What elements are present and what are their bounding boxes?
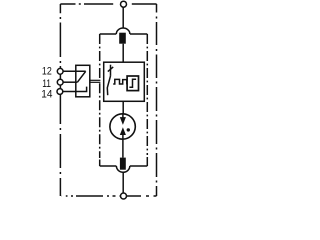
terminal 12 [57, 68, 63, 74]
svg-text:12: 12 [42, 66, 52, 78]
terminal: bottom line terminal [121, 193, 127, 199]
wire: bottom disconnector to bottom terminal [122, 172, 124, 193]
inner SPD module boundary top edge segments [100, 33, 148, 35]
inner SPD module boundary (dash-dot sides) [100, 34, 148, 158]
contact 14 line with stub [63, 87, 87, 92]
arrester top electrode arrow (down) [122, 114, 124, 118]
outer enclosure boundary bottom edge (dash-dot) [61, 195, 157, 197]
step symbol inside indicator [129, 79, 136, 87]
contact 11 line (common) [63, 81, 78, 83]
wire: arrester to bottom disconnector [122, 140, 124, 158]
surge waveform symbol [113, 79, 127, 84]
outer enclosure boundary right edge (dash-dot) [156, 4, 158, 196]
disconnect switch symbol inside box [110, 65, 112, 76]
wire: monitoring box to arrester [122, 101, 124, 114]
gas-filled indicator dot [127, 128, 130, 131]
inner SPD module boundary corner stubs [100, 157, 148, 166]
thermal disconnector (top): fuse bar [119, 33, 126, 44]
thermal disconnector (top): bridge arc [116, 28, 130, 34]
mechanical linkage (double line) to SPD [90, 79, 101, 81]
wire: top disconnector to monitoring box [122, 44, 124, 63]
outer enclosure boundary top edge (dash-dot) [60, 3, 156, 5]
outer enclosure boundary left edge (dash-dot) [59, 4, 61, 196]
arrester bottom electrode arrow (up) [120, 127, 126, 135]
terminal: top line terminal [121, 1, 127, 7]
contact 12 line inside box [63, 70, 86, 72]
surge arrester (gas discharge tube) circle [110, 114, 135, 139]
svg-text:14: 14 [41, 88, 52, 100]
terminal 14 [57, 89, 63, 95]
monitoring / disconnection device box [104, 62, 145, 101]
thermal disconnector (bottom): bridge arc [116, 166, 129, 172]
wire: top terminal to top disconnector [122, 7, 124, 28]
function indicator window [127, 76, 138, 91]
changeover blade (11 to 12) [77, 71, 85, 82]
terminal 11 [57, 79, 63, 85]
inner SPD module boundary bottom edge segments [100, 165, 148, 167]
thermal disconnector (bottom): fuse bar [120, 158, 126, 170]
remote signalling changeover contact box [76, 65, 90, 97]
